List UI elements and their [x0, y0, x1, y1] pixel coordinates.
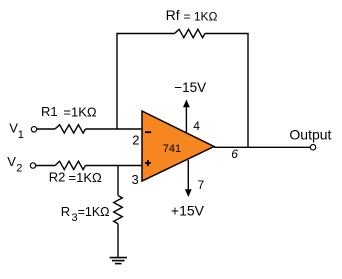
svg-text:741: 741 [163, 143, 181, 155]
svg-text:7: 7 [198, 178, 205, 192]
svg-text:Rf: Rf [166, 7, 180, 23]
svg-text:3: 3 [132, 172, 139, 187]
svg-text:+15V: +15V [171, 202, 205, 218]
svg-text:R1: R1 [41, 104, 58, 119]
svg-text:=1KΩ: =1KΩ [69, 170, 102, 185]
svg-text:1: 1 [18, 129, 24, 141]
svg-text:V: V [7, 154, 16, 169]
svg-text:R2: R2 [49, 169, 66, 184]
svg-text:=1KΩ: =1KΩ [78, 205, 110, 219]
svg-text:2: 2 [132, 132, 139, 147]
svg-text:R: R [61, 204, 70, 219]
svg-text:=1KΩ: =1KΩ [63, 104, 96, 119]
svg-text:4: 4 [193, 119, 200, 133]
svg-text:2: 2 [16, 162, 22, 174]
svg-text:6: 6 [231, 147, 238, 161]
svg-text:−15V: −15V [174, 80, 206, 95]
svg-text:= 1KΩ: = 1KΩ [184, 9, 218, 23]
svg-text:Output: Output [289, 126, 331, 142]
